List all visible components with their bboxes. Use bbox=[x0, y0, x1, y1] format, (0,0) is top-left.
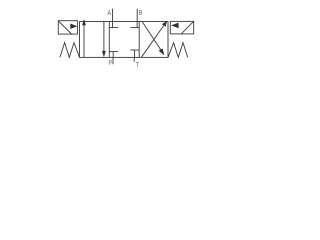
solenoid b diagonal bbox=[181, 21, 193, 34]
center position: blocked port P stub bbox=[112, 52, 114, 58]
right position: crossed arrow P to B (up-right) bbox=[142, 21, 168, 57]
left position: flow arrow down bbox=[102, 22, 106, 58]
solenoid a diagonal bbox=[58, 21, 71, 34]
center position: blocked port B stub bbox=[136, 22, 138, 28]
solenoid a box bbox=[58, 21, 77, 34]
left centering spring bbox=[60, 43, 80, 58]
center position: blocked port A crossbar bbox=[109, 27, 118, 29]
right position: crossed arrow A to T (down-right) bbox=[142, 22, 164, 56]
solenoid b box bbox=[170, 21, 193, 34]
center position: blocked port T crossbar bbox=[130, 49, 139, 51]
center position: blocked port A stub bbox=[112, 22, 114, 28]
right centering spring bbox=[168, 43, 188, 58]
port B line bbox=[136, 9, 138, 22]
position divider 2 bbox=[138, 22, 140, 58]
solenoid b actuation arrow bbox=[171, 23, 179, 29]
svg-text:B: B bbox=[139, 10, 143, 17]
port A line bbox=[112, 9, 114, 22]
left position: flow arrow up bbox=[82, 19, 86, 58]
position divider 1 bbox=[108, 22, 110, 58]
svg-text:A: A bbox=[108, 10, 112, 17]
solenoid a actuation arrow bbox=[70, 24, 77, 30]
port T line bbox=[133, 57, 135, 61]
center position: blocked port P crossbar bbox=[109, 51, 118, 53]
center position: blocked port B crossbar bbox=[130, 27, 139, 29]
svg-text:T: T bbox=[136, 62, 140, 69]
svg-text:P: P bbox=[109, 60, 112, 67]
valve envelope (3-position body) bbox=[80, 22, 169, 58]
center position: blocked port T stub bbox=[134, 50, 136, 57]
port P line bbox=[112, 57, 114, 64]
